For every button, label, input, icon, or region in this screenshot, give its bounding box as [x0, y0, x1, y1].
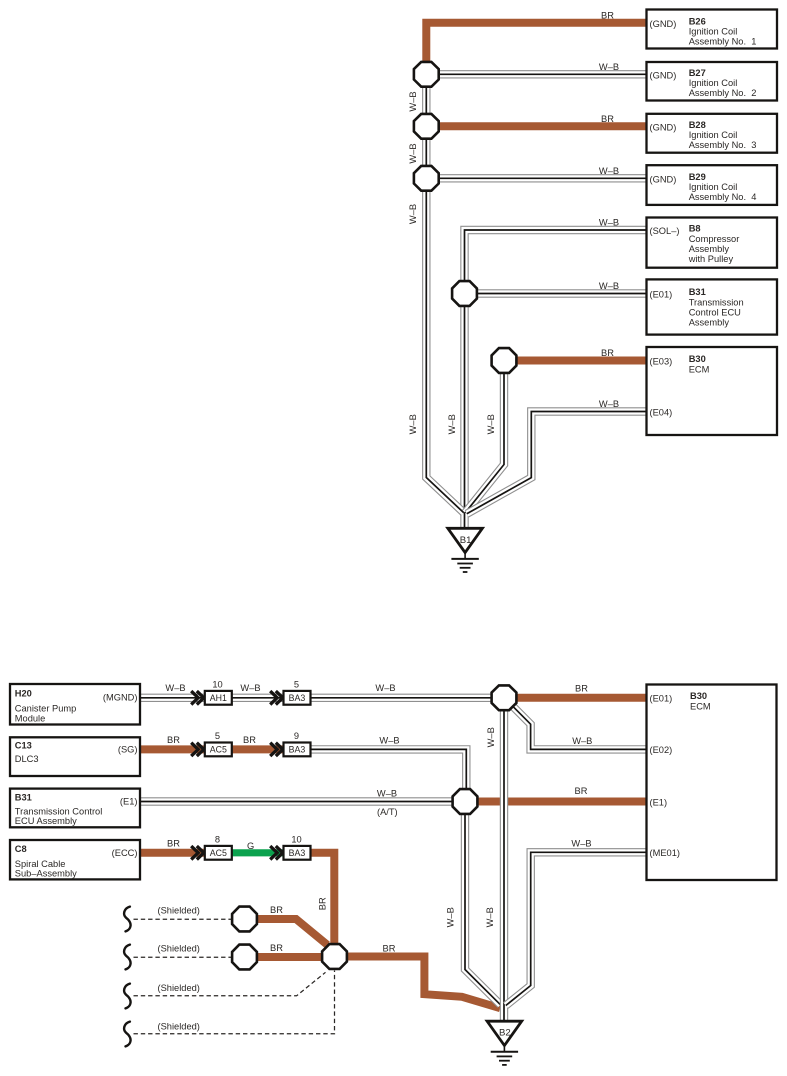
svg-text:B31: B31: [15, 792, 32, 802]
wire BR junction to B30 (E1): [465, 798, 647, 806]
svg-text:(ME01): (ME01): [650, 848, 680, 858]
svg-text:(Shielded): (Shielded): [158, 1022, 200, 1032]
wire W-B H20 (MGND) to junction: [140, 694, 504, 702]
svg-text:BR: BR: [601, 114, 614, 124]
arrows into AH1: [191, 691, 198, 704]
svg-text:(GND): (GND): [650, 174, 677, 184]
wire BR from BA3 down to shield junction: [310, 853, 334, 957]
shield brace 4: [124, 1022, 130, 1047]
svg-text:B2: B2: [499, 1028, 511, 1039]
svg-text:Assembly No. 4: Assembly No. 4: [689, 192, 757, 202]
svg-text:BR: BR: [317, 897, 327, 910]
ground B2: [487, 1021, 522, 1045]
node shielded splice S2: [232, 945, 257, 970]
connector AC5 pin 8: [205, 846, 232, 860]
box B30 ECM (top): [647, 347, 778, 435]
wire W-B from E03 junction down to ground B1: [465, 361, 504, 513]
svg-text:ECU Assembly: ECU Assembly: [15, 816, 77, 826]
node junction J5: [492, 348, 517, 373]
svg-text:W–B: W–B: [485, 907, 495, 927]
svg-text:W–B: W–B: [375, 683, 395, 693]
wire W-B from B30 (E04) down to ground B1: [467, 412, 647, 514]
svg-text:(SG): (SG): [118, 744, 138, 754]
svg-text:Ignition Coil: Ignition Coil: [689, 78, 738, 88]
svg-text:9: 9: [294, 731, 299, 741]
wire W-B junction down to ground B2 (center): [500, 698, 508, 1022]
svg-text:C13: C13: [15, 740, 32, 750]
wire BR junction to B30 (E01): [504, 694, 647, 702]
svg-text:C8: C8: [15, 844, 27, 854]
wire BR C8 (ECC) to AC5: [140, 849, 218, 857]
svg-text:W–B: W–B: [408, 414, 418, 434]
svg-text:Assembly: Assembly: [689, 317, 730, 327]
svg-text:(GND): (GND): [650, 19, 677, 29]
wire G AC5 to BA3: [218, 849, 284, 856]
svg-text:B27: B27: [689, 68, 706, 78]
svg-text:B30: B30: [690, 691, 707, 701]
connector AH1 pin 10: [205, 691, 232, 705]
svg-text:BR: BR: [575, 786, 588, 796]
node junction J6 (E01 row): [492, 685, 517, 710]
wire W-B junction to B29 (GND): [426, 174, 646, 182]
box B8 Compressor Assembly with Pulley: [647, 218, 778, 268]
wire W-B junction to B31 (E01): [465, 289, 647, 297]
svg-text:with Pulley: with Pulley: [688, 254, 734, 264]
svg-text:W–B: W–B: [599, 218, 619, 228]
svg-text:W–B: W–B: [240, 683, 260, 693]
svg-text:(GND): (GND): [650, 70, 677, 80]
box B31 Transmission Control ECU Assembly (top): [647, 279, 778, 334]
svg-text:(GND): (GND): [650, 122, 677, 132]
svg-text:AH1: AH1: [210, 693, 227, 703]
svg-text:BR: BR: [167, 735, 180, 745]
arrows into BA3 (row1): [270, 691, 277, 704]
box C8 Spiral Cable Sub-Assembly: [10, 840, 140, 879]
svg-text:B30: B30: [689, 354, 706, 364]
shield dashed line 1: [134, 918, 232, 920]
svg-text:B26: B26: [689, 16, 706, 26]
svg-text:W–B: W–B: [377, 788, 397, 798]
svg-text:W–B: W–B: [446, 907, 456, 927]
svg-text:W–B: W–B: [599, 281, 619, 291]
svg-text:H20: H20: [15, 688, 32, 698]
svg-text:Assembly No. 3: Assembly No. 3: [689, 140, 757, 150]
svg-text:W–B: W–B: [599, 166, 619, 176]
svg-text:ECM: ECM: [690, 702, 711, 712]
svg-text:B31: B31: [689, 287, 706, 297]
svg-text:Module: Module: [15, 713, 46, 723]
svg-text:Control ECU: Control ECU: [689, 307, 741, 317]
svg-text:Spiral Cable: Spiral Cable: [15, 859, 66, 869]
svg-text:Sub–Assembly: Sub–Assembly: [15, 869, 77, 879]
shield brace 2: [124, 945, 130, 970]
svg-text:Ignition Coil: Ignition Coil: [689, 130, 738, 140]
svg-text:ECM: ECM: [689, 364, 710, 374]
svg-text:(Shielded): (Shielded): [158, 906, 200, 916]
node junction J1: [414, 62, 439, 87]
wire W-B junction to B27 (GND): [426, 70, 646, 78]
svg-text:Assembly No. 1: Assembly No. 1: [689, 37, 757, 47]
box B28 Ignition Coil Assembly No.3: [647, 114, 778, 153]
svg-text:Canister Pump: Canister Pump: [15, 704, 77, 714]
arrows into BA3 (row4): [270, 846, 277, 859]
node junction J2: [414, 114, 439, 139]
box B30 ECM (bottom): [647, 685, 777, 881]
svg-text:G: G: [247, 841, 254, 851]
arrows into AC5 (row4): [191, 846, 198, 859]
svg-text:B28: B28: [689, 120, 706, 130]
wire W-B from BA3 (C13 row) to junction: [310, 749, 466, 801]
svg-text:8: 8: [215, 835, 220, 845]
connector BA3 pin 10: [284, 846, 311, 860]
svg-text:DLC3: DLC3: [15, 754, 39, 764]
svg-text:(E02): (E02): [650, 745, 673, 755]
svg-text:10: 10: [212, 680, 222, 690]
svg-text:BR: BR: [383, 944, 396, 954]
wire W-B chain from B8 (SOL-) down to ground B1: [465, 230, 647, 529]
connector BA3 pin 5: [284, 691, 311, 705]
svg-text:BA3: BA3: [289, 693, 306, 703]
svg-text:BR: BR: [243, 735, 256, 745]
svg-text:W–B: W–B: [408, 91, 418, 111]
arrows into AC5 (row2): [191, 743, 198, 756]
svg-text:5: 5: [294, 680, 299, 690]
box C13 DLC3: [10, 737, 140, 776]
wire BR shielded splice 1 to junction: [245, 919, 328, 945]
svg-text:(E01): (E01): [650, 694, 673, 704]
svg-text:(E03): (E03): [650, 356, 673, 366]
wire BR C13 (SG) to AC5: [140, 745, 284, 753]
svg-text:BA3: BA3: [289, 848, 306, 858]
svg-text:10: 10: [291, 835, 301, 845]
arrows into BA3 (row2): [270, 743, 277, 756]
wire W-B junction to B30 (E02): [513, 707, 646, 750]
wire BR to B26 (GND): [426, 23, 646, 75]
box B27 Ignition Coil Assembly No.2: [647, 62, 778, 101]
svg-text:BA3: BA3: [289, 745, 306, 755]
svg-text:W–B: W–B: [571, 839, 591, 849]
svg-text:W–B: W–B: [447, 414, 457, 434]
svg-text:(E1): (E1): [650, 797, 668, 807]
svg-text:W–B: W–B: [165, 683, 185, 693]
svg-text:W–B: W–B: [486, 727, 496, 747]
svg-text:AC5: AC5: [210, 848, 227, 858]
svg-text:(SOL–): (SOL–): [650, 226, 680, 236]
svg-text:(A/T): (A/T): [377, 807, 398, 817]
svg-text:W–B: W–B: [379, 735, 399, 745]
svg-text:(MGND): (MGND): [103, 692, 138, 702]
svg-text:AC5: AC5: [210, 745, 227, 755]
svg-text:W–B: W–B: [599, 399, 619, 409]
svg-text:B1: B1: [460, 535, 472, 546]
wire W-B left chain down to ground B1: [426, 74, 464, 513]
box B26 Ignition Coil Assembly No.1: [647, 10, 778, 49]
shield brace 1: [124, 907, 130, 932]
svg-text:W–B: W–B: [408, 204, 418, 224]
svg-text:(Shielded): (Shielded): [158, 944, 200, 954]
svg-text:Transmission Control: Transmission Control: [15, 806, 103, 816]
svg-text:(E01): (E01): [650, 289, 673, 299]
node junction J4: [452, 281, 477, 306]
svg-text:B8: B8: [689, 223, 701, 233]
box B29 Ignition Coil Assembly No.4: [647, 165, 778, 205]
ground B1: [448, 528, 483, 552]
svg-text:Assembly No. 2: Assembly No. 2: [689, 88, 757, 98]
wire W-B junction down to ground B2 (left): [465, 802, 501, 1005]
svg-text:W–B: W–B: [599, 62, 619, 72]
box H20 Canister Pump Module: [10, 684, 140, 725]
shield dashed line 2: [134, 956, 232, 958]
wire W-B B31 (E1) to junction: [140, 797, 465, 805]
svg-text:W–B: W–B: [486, 414, 496, 434]
svg-text:Ignition Coil: Ignition Coil: [689, 182, 738, 192]
svg-text:BR: BR: [167, 839, 180, 849]
node shield junction J8: [322, 944, 347, 969]
shield dashed line 4: [134, 971, 335, 1034]
svg-text:(Shielded): (Shielded): [158, 983, 200, 993]
wire W-B B30 (ME01) to ground B2: [506, 852, 647, 1005]
svg-text:W–B: W–B: [408, 143, 418, 163]
wire BR shielded splice 2 to junction: [245, 953, 335, 961]
svg-text:Assembly: Assembly: [689, 244, 730, 254]
svg-text:BR: BR: [575, 684, 588, 694]
svg-text:5: 5: [215, 731, 220, 741]
connector AC5 pin 5: [205, 743, 232, 757]
wire BR shield junction to ground B2: [335, 957, 501, 1009]
box B31 Transmission Control ECU Assembly (bottom): [10, 789, 140, 828]
svg-text:(E04): (E04): [650, 407, 673, 417]
node junction J3: [414, 166, 439, 191]
svg-text:BR: BR: [601, 348, 614, 358]
svg-text:BR: BR: [601, 10, 614, 20]
wire BR junction to B28 (GND): [426, 122, 646, 130]
wire BR junction to B30 (E03): [504, 357, 647, 365]
connector BA3 pin 9: [284, 743, 311, 757]
svg-text:BR: BR: [270, 943, 283, 953]
svg-text:W–B: W–B: [572, 736, 592, 746]
svg-text:Compressor: Compressor: [689, 234, 740, 244]
node junction J7 (E1 row): [453, 789, 478, 814]
svg-text:BR: BR: [270, 905, 283, 915]
svg-text:(ECC): (ECC): [112, 848, 138, 858]
svg-text:Ignition Coil: Ignition Coil: [689, 27, 738, 37]
node shielded splice S1: [232, 907, 257, 932]
shield dashed line 3: [134, 972, 326, 996]
shield brace 3: [124, 984, 130, 1009]
svg-text:Transmission: Transmission: [689, 297, 744, 307]
svg-text:B29: B29: [689, 172, 706, 182]
svg-text:(E1): (E1): [120, 796, 138, 806]
